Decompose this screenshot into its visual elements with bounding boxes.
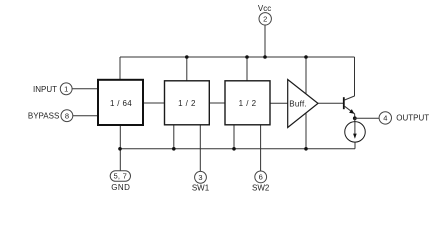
wire Vcc drop	[264, 25, 266, 57]
node box2 top junction	[185, 55, 189, 59]
wire box3 to buffer	[270, 102, 288, 104]
node output junction	[353, 116, 357, 120]
transistor Q1	[344, 96, 355, 114]
attenuator block 1/64	[98, 80, 143, 125]
svg-text:2: 2	[263, 15, 267, 24]
wire box2 to box3	[209, 102, 225, 104]
svg-text:SW1: SW1	[192, 183, 210, 192]
wire box2 right bottom to SW1 pin	[199, 125, 201, 172]
svg-text:Buff.: Buff.	[289, 99, 307, 108]
divider block 1/2 second	[225, 81, 270, 125]
svg-text:1 / 2: 1 / 2	[178, 99, 196, 108]
pins 5,7 GND	[110, 171, 130, 192]
wire collector riser	[354, 57, 356, 96]
node box3 ground junction	[232, 147, 236, 151]
node buffer bottom junction	[304, 147, 308, 151]
node box2 ground junction	[172, 147, 176, 151]
node Vcc junction	[263, 55, 267, 59]
svg-text:6: 6	[259, 173, 263, 182]
wire buffer output to base	[318, 102, 343, 104]
wire box1 top stub	[119, 57, 121, 80]
svg-text:1: 1	[64, 85, 68, 94]
wire box3 top stub	[246, 57, 248, 81]
svg-text:5, 7: 5, 7	[113, 172, 127, 181]
wire box3 right bottom to SW2 pin	[260, 125, 262, 171]
pin 3 SW1	[192, 171, 210, 192]
pin 6 SW2	[252, 171, 270, 192]
wire current source return	[354, 142, 356, 149]
svg-text:1 / 2: 1 / 2	[239, 99, 257, 108]
svg-text:GND: GND	[111, 183, 130, 192]
wire top supply bus	[120, 56, 355, 58]
pin 2 Vcc	[258, 4, 271, 25]
svg-text:INPUT: INPUT	[33, 85, 57, 94]
svg-text:Vcc: Vcc	[258, 4, 271, 13]
wire box1 to box2	[143, 102, 165, 104]
wire bottom ground bus	[120, 148, 355, 150]
divider block 1/2 first	[165, 81, 210, 125]
pin 1 INPUT	[33, 83, 72, 95]
svg-text:8: 8	[65, 111, 69, 120]
wire output lead	[355, 117, 379, 119]
pin 4 OUTPUT	[379, 112, 429, 124]
wire output node to current source	[354, 118, 356, 121]
wire buffer vertical through	[305, 57, 307, 149]
pin 8 BYPASS	[28, 110, 73, 122]
svg-text:4: 4	[383, 114, 387, 123]
wire emitter to output node	[354, 114, 356, 119]
node ground bus left junction	[118, 147, 122, 151]
node buffer top junction	[304, 55, 308, 59]
wire bypass lead	[73, 115, 97, 117]
current source I1	[345, 122, 366, 143]
svg-text:BYPASS: BYPASS	[28, 112, 59, 121]
wire box2 top stub	[186, 57, 188, 81]
wire box3 left bottom stub	[233, 125, 235, 149]
wire box1 bottom to GND pin	[119, 125, 121, 171]
svg-text:3: 3	[198, 173, 202, 182]
node box3 top junction	[245, 55, 249, 59]
wire input lead	[72, 88, 97, 90]
svg-text:1 / 64: 1 / 64	[110, 99, 132, 108]
svg-text:OUTPUT: OUTPUT	[396, 114, 429, 123]
wire box2 left bottom stub	[173, 125, 175, 149]
op-amp buffer U1	[288, 80, 318, 128]
svg-text:SW2: SW2	[252, 183, 270, 192]
